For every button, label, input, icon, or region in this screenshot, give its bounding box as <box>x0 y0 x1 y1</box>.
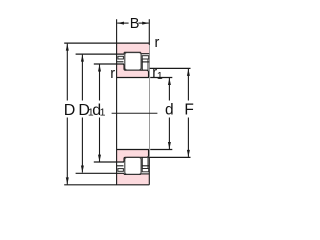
svg-text:1: 1 <box>157 70 163 82</box>
svg-text:D: D <box>64 102 76 119</box>
svg-text:r: r <box>110 66 115 82</box>
svg-text:1: 1 <box>100 107 106 119</box>
svg-text:B: B <box>130 16 140 32</box>
svg-text:d: d <box>165 101 174 118</box>
svg-text:F: F <box>184 101 193 118</box>
svg-text:r: r <box>155 35 160 51</box>
